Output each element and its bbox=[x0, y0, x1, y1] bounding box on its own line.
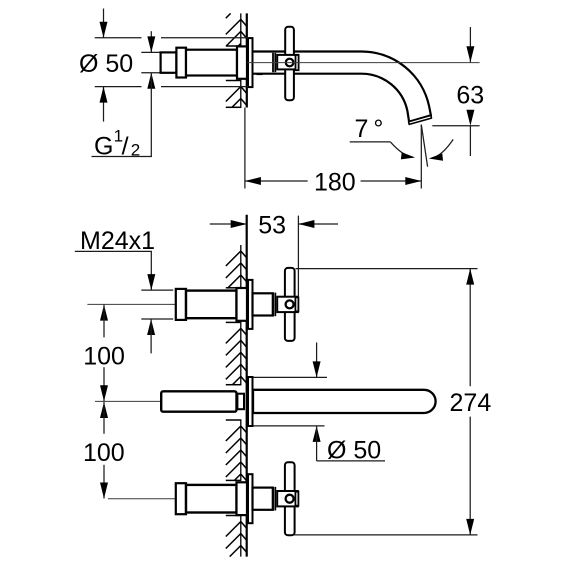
svg-text:63: 63 bbox=[456, 82, 484, 110]
svg-text:Ø 50: Ø 50 bbox=[79, 50, 133, 78]
svg-text:/: / bbox=[122, 133, 129, 161]
svg-text:Ø 50: Ø 50 bbox=[327, 437, 381, 465]
svg-text:M24x1: M24x1 bbox=[80, 227, 155, 255]
svg-text:274: 274 bbox=[450, 389, 492, 417]
svg-text:100: 100 bbox=[83, 343, 125, 371]
svg-text:G: G bbox=[94, 133, 113, 161]
svg-text:53: 53 bbox=[258, 211, 286, 239]
svg-text:2: 2 bbox=[131, 141, 140, 160]
svg-text:100: 100 bbox=[83, 439, 125, 467]
svg-text:180: 180 bbox=[314, 168, 356, 196]
svg-text:7°: 7° bbox=[355, 115, 389, 143]
